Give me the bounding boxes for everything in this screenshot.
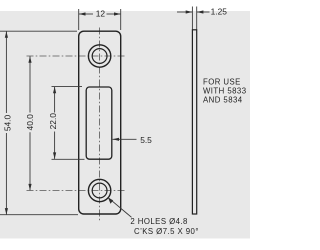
svg-text:5.5: 5.5 — [140, 135, 152, 145]
svg-text:C’KS Ø7.5 X 90°: C’KS Ø7.5 X 90° — [134, 227, 199, 236]
svg-text:1.25: 1.25 — [211, 7, 228, 17]
svg-text:WITH 5833: WITH 5833 — [203, 87, 246, 96]
svg-text:FOR USE: FOR USE — [203, 77, 241, 86]
svg-text:22.0: 22.0 — [48, 113, 58, 130]
svg-text:AND 5834: AND 5834 — [203, 96, 243, 105]
svg-text:54.0: 54.0 — [3, 115, 13, 132]
svg-text:40.0: 40.0 — [25, 114, 35, 131]
svg-text:12: 12 — [96, 8, 106, 18]
svg-text:2 HOLES Ø4.8: 2 HOLES Ø4.8 — [130, 217, 187, 226]
